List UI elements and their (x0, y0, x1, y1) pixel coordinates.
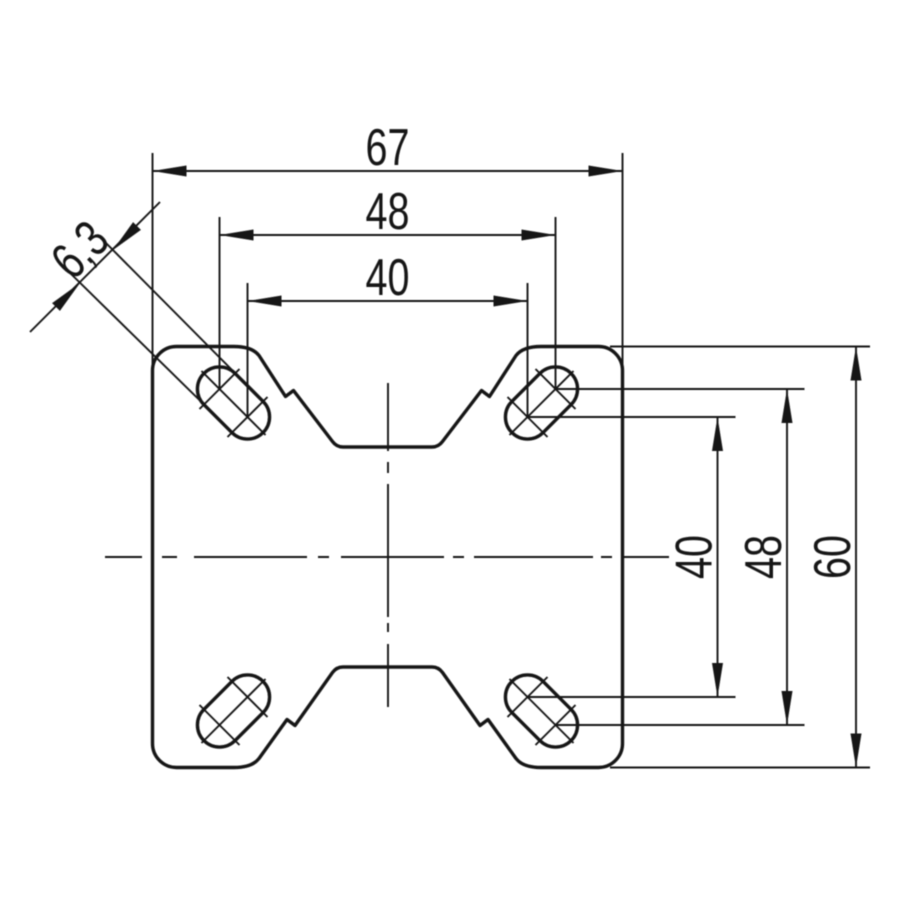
svg-text:60: 60 (803, 535, 862, 579)
dim 67 extension left (152, 153, 154, 368)
dim 6,3 arrows (52, 222, 141, 311)
dim 6,3 extension lower (67, 270, 204, 405)
dim 67 extension right (622, 153, 624, 368)
dim v60 line (855, 347, 857, 768)
svg-text:40: 40 (664, 535, 723, 579)
dim v60 arrows (851, 347, 862, 768)
slot BL center marks (200, 677, 268, 745)
dim 48 extension right (555, 217, 557, 389)
dim 40 extension right (527, 283, 529, 417)
dim 40 extension left (247, 283, 249, 417)
horizontal centerline (105, 556, 669, 558)
dim v48 extensions (556, 389, 805, 725)
plate outline (153, 347, 623, 768)
vertical centerline (387, 383, 389, 707)
svg-text:48: 48 (366, 182, 410, 241)
dim 48 extension left (219, 217, 221, 389)
slot hole bottom-left (197, 675, 269, 747)
slot BR center marks (508, 677, 576, 745)
svg-text:48: 48 (734, 535, 793, 579)
dim 48 arrows (220, 230, 556, 241)
dim 48 line (220, 234, 556, 236)
svg-text:67: 67 (366, 118, 410, 177)
slot hole top-left (197, 367, 269, 439)
dim 67 line (153, 170, 623, 172)
dim v48 arrows (782, 389, 793, 725)
slot TL center marks (200, 369, 268, 437)
dim v40 line (717, 417, 719, 697)
svg-text:40: 40 (366, 248, 410, 307)
dim 6,3 extension upper (100, 237, 235, 373)
slot TR center marks (508, 369, 576, 437)
dim v40 arrows (712, 417, 723, 697)
slot hole bottom-right (505, 675, 577, 747)
dim 40 line (248, 300, 528, 302)
dim 40 arrows (248, 296, 528, 307)
dim v40 extensions (528, 417, 736, 697)
dim 67 arrows (153, 166, 623, 177)
slot hole top-right (505, 367, 577, 439)
dim v48 line (786, 389, 788, 725)
dim v60 extensions (610, 347, 870, 768)
dim 6,3 line (30, 202, 160, 332)
